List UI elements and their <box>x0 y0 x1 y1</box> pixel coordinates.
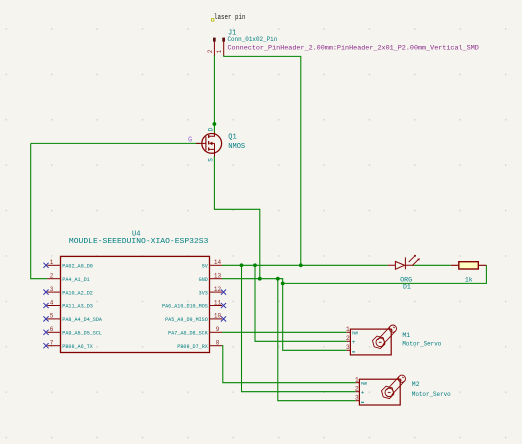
wire U4 pin8 to M2 pin1 <box>222 346 356 383</box>
wire J1 pin2 to Q1 drain <box>213 55 215 134</box>
U4 body <box>61 256 210 352</box>
svg-text:PA9_A5_D5_SCL: PA9_A5_D5_SCL <box>62 330 102 337</box>
svg-text:+: + <box>361 389 365 396</box>
wire GND U4 pin13 to M1 pin3 <box>222 279 347 351</box>
M1 pin names <box>352 331 358 352</box>
svg-text:Motor_Servo: Motor_Servo <box>412 391 451 398</box>
svg-text:4: 4 <box>50 299 54 306</box>
wire U4 pin9 to M1 pin1 <box>222 331 347 333</box>
svg-text:PA10_A2_D2: PA10_A2_D2 <box>62 289 93 296</box>
U4 pin 14 5V <box>202 259 222 269</box>
motor M2 Motor_Servo <box>356 375 406 405</box>
svg-text:6: 6 <box>50 326 54 333</box>
junction GND return <box>281 282 285 286</box>
U4 pin 2 PA4_A1_D1 <box>47 273 90 283</box>
svg-text:3: 3 <box>50 286 54 293</box>
svg-text:7: 7 <box>50 340 54 347</box>
U4 pin 5 PA8_A4_D4_SDA <box>43 313 102 323</box>
svg-text:3: 3 <box>355 395 359 402</box>
junction 5V c <box>299 263 303 267</box>
connector J1 <box>207 38 225 56</box>
svg-text:PWM: PWM <box>361 381 367 387</box>
transistor Q1 NMOS <box>196 133 222 157</box>
wire LED to resistor <box>413 264 450 266</box>
svg-text:PA5_A9_D9_MISO: PA5_A9_D9_MISO <box>165 316 208 323</box>
U4 pin 12 3V3 <box>199 286 226 296</box>
wire Q1 gate horizontal <box>31 142 201 144</box>
svg-text:11: 11 <box>214 299 222 306</box>
wire Q1 source to GND <box>214 156 259 279</box>
svg-text:PB09_D7_RX: PB09_D7_RX <box>177 343 208 350</box>
resistor R1 1k <box>451 262 487 269</box>
label laser pin <box>211 14 245 22</box>
svg-text:10: 10 <box>214 313 222 320</box>
svg-text:PB08_A6_TX: PB08_A6_TX <box>62 343 93 350</box>
svg-text:GND: GND <box>199 276 209 283</box>
svg-text:D: D <box>207 127 214 131</box>
svg-text:laser pin: laser pin <box>214 14 246 22</box>
svg-text:+: + <box>352 339 356 346</box>
svg-text:Q1: Q1 <box>228 134 236 142</box>
svg-text:PA4_A1_D1: PA4_A1_D1 <box>62 276 90 283</box>
svg-text:8: 8 <box>216 340 220 347</box>
svg-text:PA7_A8_D8_SCK: PA7_A8_D8_SCK <box>168 330 208 337</box>
svg-text:S: S <box>207 158 214 162</box>
LED D1 <box>388 255 420 270</box>
wire J1 pin1 to 5V net <box>224 55 301 265</box>
svg-text:2: 2 <box>355 386 359 393</box>
svg-text:3: 3 <box>346 344 350 351</box>
wire GND to M2 pin3 <box>278 279 356 401</box>
U4 pin 8 PB09_D7_RX <box>177 340 222 350</box>
svg-text:PWM: PWM <box>352 331 358 337</box>
svg-text:NMOS: NMOS <box>228 143 245 151</box>
junction 5V b <box>253 263 257 267</box>
U4 pin 6 PA9_A5_D5_SCL <box>43 326 102 336</box>
svg-text:G: G <box>188 137 192 145</box>
svg-text:1: 1 <box>346 326 350 333</box>
svg-text:M2: M2 <box>412 381 420 388</box>
U4 pin 4 PA11_A3_D3 <box>43 299 93 309</box>
svg-text:3V3: 3V3 <box>199 289 209 296</box>
svg-text:1: 1 <box>216 49 223 53</box>
svg-text:D1: D1 <box>403 284 411 291</box>
svg-text:M1: M1 <box>402 332 410 339</box>
svg-text:Conn_01x02_Pin: Conn_01x02_Pin <box>228 36 278 43</box>
svg-text:PA8_A4_D4_SDA: PA8_A4_D4_SDA <box>62 316 102 323</box>
svg-text:PA11_A3_D3: PA11_A3_D3 <box>62 303 93 310</box>
M1 pin numbers <box>346 326 350 351</box>
U4 pin 9 PA7_A8_D8_SCK <box>168 326 222 336</box>
junction drain <box>213 122 217 126</box>
svg-text:13: 13 <box>214 273 222 280</box>
M2 pin names <box>361 381 367 402</box>
junction GND a <box>258 277 262 281</box>
svg-text:2: 2 <box>207 49 214 53</box>
junction GND b <box>276 277 280 281</box>
junction 5V a <box>240 263 244 267</box>
wire 5V to M1 pin2 <box>255 265 347 341</box>
svg-text:2: 2 <box>50 273 54 280</box>
svg-text:Connector_PinHeader_2.00mm:Pin: Connector_PinHeader_2.00mm:PinHeader_2x0… <box>228 44 479 51</box>
svg-text:PA6_A10_D10_MOS: PA6_A10_D10_MOS <box>162 303 208 310</box>
svg-text:2: 2 <box>346 335 350 342</box>
svg-text:MOUDLE-SEEEDUINO-XIAO-ESP32S3: MOUDLE-SEEEDUINO-XIAO-ESP32S3 <box>69 238 209 246</box>
svg-text:5V: 5V <box>202 263 208 270</box>
U4 pin 11 PA6_A10_D10_MOS <box>162 299 226 309</box>
U4 pin 13 GND <box>199 273 222 283</box>
svg-text:5: 5 <box>50 313 54 320</box>
U4 pin 10 PA5_A9_D9_MISO <box>165 313 226 323</box>
svg-text:ORG: ORG <box>400 276 412 283</box>
svg-text:PA02_A0_D0: PA02_A0_D0 <box>62 263 93 270</box>
U4 pin 7 PB08_A6_TX <box>43 340 93 350</box>
U4 pin 3 PA10_A2_D2 <box>43 286 93 296</box>
wire gate to U4 pin2 <box>31 143 48 278</box>
U4 pin 1 PA02_A0_D0 <box>43 259 93 269</box>
svg-text:1: 1 <box>50 259 54 266</box>
wire resistor return <box>283 265 487 283</box>
svg-text:14: 14 <box>214 259 222 266</box>
svg-text:Motor_Servo: Motor_Servo <box>402 341 441 348</box>
svg-text:1: 1 <box>355 377 359 384</box>
svg-text:9: 9 <box>216 326 220 333</box>
svg-text:12: 12 <box>214 286 222 293</box>
motor M1 Motor_Servo <box>347 325 397 355</box>
wire 5V to M2 pin2 <box>242 265 356 391</box>
svg-text:1k: 1k <box>465 276 473 283</box>
M2 pin numbers <box>355 377 359 402</box>
wire 5V line U4 pin14 to LED <box>222 264 388 266</box>
